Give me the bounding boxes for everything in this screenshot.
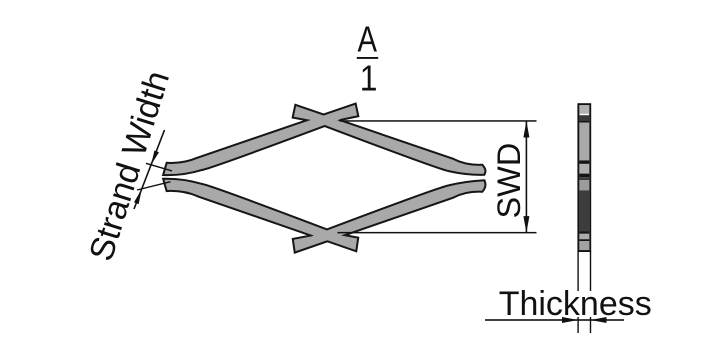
- strand width lower arrowhead: [134, 189, 142, 204]
- SWD dimension line: [526, 121, 528, 233]
- thickness bar separator 4: [579, 231, 589, 234]
- thickness bar segment dark long: [579, 190, 589, 231]
- thickness extension line right: [590, 251, 591, 291]
- thickness bar segment light 5: [579, 234, 589, 239]
- strand upper-right outline: [295, 107, 484, 173]
- thickness bar separator 3: [579, 174, 589, 178]
- thickness bar segment dark 1: [579, 115, 589, 120]
- SWD bottom arrowhead: [523, 216, 529, 233]
- strand lower-left fill: [166, 180, 357, 248]
- thickness extension line left: [577, 251, 578, 291]
- thickness bar separator 5: [579, 239, 589, 241]
- thickness extension line left lower: [577, 317, 578, 333]
- thickness dimension line: [485, 319, 624, 321]
- thickness right arrowhead: [591, 317, 607, 323]
- thickness bar segment light 3: [579, 164, 589, 174]
- SWD top extension line: [340, 120, 537, 122]
- thickness bar segment light 1: [579, 105, 589, 114]
- diamond mesh strands (outline pass): [166, 106, 484, 250]
- thickness bar segment mid dark: [579, 177, 589, 180]
- strand lower-right outline: [295, 182, 484, 250]
- thickness bar outer outline: [578, 104, 590, 251]
- svg-text:1: 1: [360, 58, 378, 99]
- svg-text:Strand Width: Strand Width: [82, 66, 177, 265]
- strand width extension line lower: [137, 182, 171, 190]
- strand lower-right fill: [295, 182, 484, 250]
- strand lower-left outline: [166, 180, 357, 248]
- strand width upper arrowhead: [151, 151, 159, 165]
- strand width dimension line: [134, 130, 165, 209]
- fraction bar of A/1: [357, 57, 378, 59]
- thickness bar segment gray 4: [579, 180, 589, 190]
- thickness left arrowhead: [562, 317, 578, 323]
- strand upper-right fill: [295, 107, 484, 173]
- svg-text:SWD: SWD: [491, 143, 527, 219]
- svg-text:A: A: [358, 19, 378, 60]
- thickness bar segment light 2: [579, 123, 589, 161]
- thickness extension line right lower: [590, 317, 591, 333]
- strand upper-left fill: [166, 106, 357, 173]
- SWD top arrowhead: [523, 121, 529, 138]
- strand width extension line upper: [146, 163, 172, 171]
- thickness bar segment gray 6: [579, 241, 589, 250]
- thickness bar separator 2: [579, 160, 589, 164]
- strand upper-left outline: [166, 106, 357, 173]
- svg-text:Thickness: Thickness: [499, 285, 652, 323]
- diamond mesh strands (fill pass): [166, 106, 484, 250]
- thickness bar separator 1: [579, 120, 589, 122]
- SWD bottom extension line: [338, 232, 537, 234]
